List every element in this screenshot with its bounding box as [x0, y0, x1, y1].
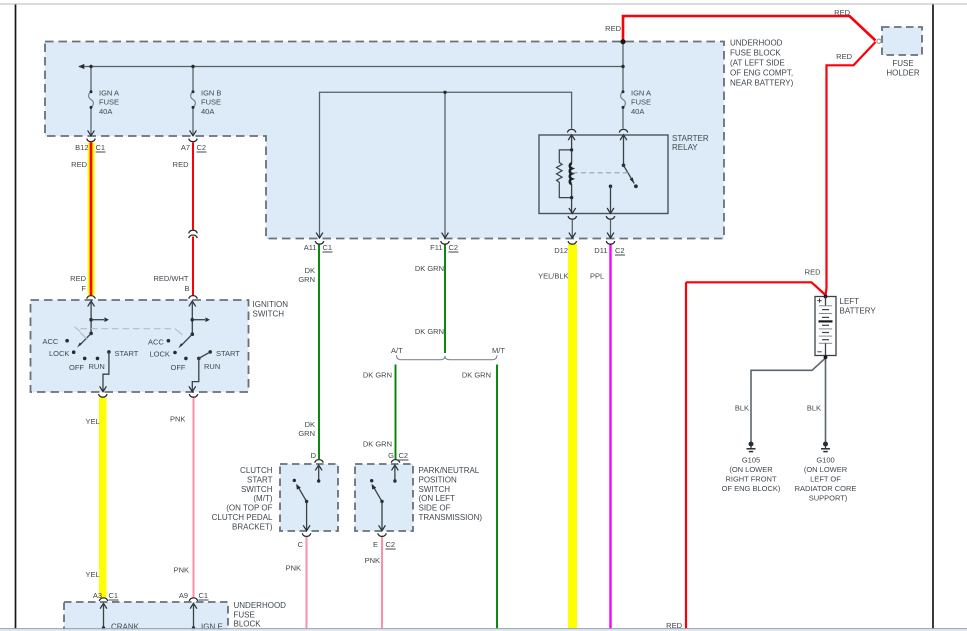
svg-text:(ON LEFT: (ON LEFT — [419, 494, 456, 503]
svg-text:RED: RED — [71, 160, 87, 169]
fuse IGN A (right) drop wire — [622, 42, 624, 92]
connector F (cap) — [87, 296, 96, 299]
svg-text:F: F — [81, 284, 86, 293]
connector D11 C2 — [607, 233, 614, 238]
svg-text:A9: A9 — [179, 591, 188, 600]
svg-text:RELAY: RELAY — [672, 143, 698, 152]
svg-text:D11: D11 — [594, 246, 607, 255]
svg-text:RUN: RUN — [204, 362, 220, 371]
svg-text:ACC: ACC — [43, 337, 59, 346]
ignition right: START output wire via RUN — [192, 352, 210, 391]
ignition right: switch arm to LOCK — [181, 334, 193, 346]
svg-text:START: START — [216, 349, 240, 358]
frame right line — [932, 5, 934, 630]
svg-text:C2: C2 — [386, 540, 396, 549]
wire PNK clutch switch C off page — [306, 537, 308, 629]
svg-text:RADIATOR CORE: RADIATOR CORE — [795, 484, 857, 493]
svg-text:G105: G105 — [742, 456, 760, 465]
svg-text:YEL/BLK: YEL/BLK — [538, 272, 568, 281]
svg-text:B: B — [184, 284, 189, 293]
node fuse1 tap — [89, 65, 92, 68]
relay pin connector (coil side) — [567, 129, 576, 132]
svg-text:C2: C2 — [449, 243, 459, 252]
svg-text:B12: B12 — [75, 143, 88, 152]
inner bus wire to relay — [320, 92, 572, 238]
ignition right: horizontal arrow — [192, 319, 205, 321]
svg-text:HOLDER: HOLDER — [886, 68, 920, 77]
svg-text:G: G — [388, 451, 394, 460]
svg-text:OFF: OFF — [69, 363, 84, 372]
connector G cap — [391, 460, 400, 463]
svg-text:PNK: PNK — [170, 415, 185, 424]
svg-text:FUSE: FUSE — [99, 98, 119, 107]
ignition right: position contacts — [167, 339, 171, 343]
wire DK GRN F11-C2 to A/T-M/T split — [444, 244, 446, 353]
svg-text:PNK: PNK — [365, 556, 380, 565]
svg-text:START: START — [247, 475, 273, 484]
connector A3 C1 cap — [99, 598, 108, 601]
svg-text:RIGHT FRONT: RIGHT FRONT — [725, 475, 777, 484]
wire DK GRN M/T branch off page — [496, 365, 498, 629]
svg-text:E: E — [373, 540, 378, 549]
wire RED fuse block to fuse holder (top) — [623, 16, 876, 42]
svg-text:RED: RED — [70, 274, 86, 283]
connector A9 C1 cap — [189, 598, 198, 601]
svg-text:(ON LOWER: (ON LOWER — [804, 465, 848, 474]
svg-text:IGN B: IGN B — [201, 89, 221, 98]
relay coil side wire — [571, 135, 573, 164]
svg-text:C1: C1 — [199, 591, 209, 600]
battery U1 box — [815, 297, 836, 356]
svg-text:A/T: A/T — [391, 346, 403, 355]
svg-text:GRN: GRN — [298, 429, 315, 438]
svg-text:FUSE: FUSE — [631, 98, 651, 107]
wire RED fuse holder to battery + — [826, 42, 876, 295]
svg-text:YEL: YEL — [86, 417, 100, 426]
underhood fuse block (bottom) — [64, 602, 228, 631]
battery - terminal dot — [824, 355, 828, 359]
frame left line — [15, 5, 17, 630]
svg-text:NEAR BATTERY): NEAR BATTERY) — [730, 79, 794, 88]
connector A11 C1 — [316, 233, 323, 238]
connector C (cup below box) — [189, 394, 198, 397]
inline connector on RED/WHT wire — [189, 230, 198, 233]
svg-text:(AT LEFT SIDE: (AT LEFT SIDE — [730, 59, 785, 68]
node F11 tap — [443, 91, 446, 94]
svg-text:DK: DK — [305, 266, 315, 275]
svg-text:IGN A: IGN A — [99, 89, 119, 98]
svg-text:IGN A: IGN A — [631, 89, 651, 98]
svg-text:LEFT OF: LEFT OF — [810, 475, 841, 484]
svg-text:A3: A3 — [93, 591, 102, 600]
svg-text:OF ENG COMPT,: OF ENG COMPT, — [730, 69, 793, 78]
ignition right: feed wire + arrow up — [189, 301, 196, 306]
connector E cup — [378, 533, 387, 536]
wire DK GRN A11-C1 to clutch switch D — [318, 244, 320, 459]
relay coil — [570, 163, 572, 184]
park/neutral switch arm — [370, 479, 373, 482]
battery plates — [819, 305, 832, 307]
svg-text:FUSE: FUSE — [234, 610, 255, 619]
svg-text:DK GRN: DK GRN — [363, 440, 392, 449]
svg-text:SUPPORT): SUPPORT) — [809, 494, 848, 503]
svg-text:ACC: ACC — [148, 338, 164, 347]
bottom strip — [0, 629, 967, 631]
svg-text:(ON TOP OF: (ON TOP OF — [226, 504, 272, 513]
svg-text:40A: 40A — [99, 107, 112, 116]
connector F11 C2 — [442, 233, 449, 238]
node red/bus junction — [621, 65, 624, 68]
svg-text:M/T: M/T — [492, 346, 505, 355]
svg-text:YEL: YEL — [86, 570, 100, 579]
connector B (cap) — [189, 296, 198, 299]
connector D cap — [315, 460, 324, 463]
ground G105 — [747, 442, 756, 452]
svg-text:CLUTCH: CLUTCH — [240, 466, 273, 475]
svg-text:40A: 40A — [201, 107, 214, 116]
svg-text:OFF: OFF — [171, 363, 186, 372]
wire BLK battery to grounds — [751, 358, 826, 442]
svg-text:RED: RED — [605, 24, 621, 33]
svg-text:PARK/NEUTRAL: PARK/NEUTRAL — [419, 466, 480, 475]
svg-text:G100: G100 — [816, 456, 834, 465]
svg-text:40A: 40A — [631, 107, 644, 116]
wire PNK park/neutral E off page — [381, 537, 383, 629]
svg-text:TRANSMISSION): TRANSMISSION) — [419, 513, 483, 522]
svg-text:IGNITION: IGNITION — [253, 300, 289, 309]
relay D12 exit wire — [571, 220, 573, 238]
svg-text:CLUTCH PEDAL: CLUTCH PEDAL — [212, 513, 273, 522]
bus wire (fuse feed) — [79, 66, 623, 68]
svg-text:D: D — [311, 451, 317, 460]
wire PPL D11-C2 off page — [609, 244, 611, 629]
connector C cup — [302, 533, 311, 536]
svg-text:BRACKET): BRACKET) — [232, 522, 273, 531]
fuse IGN A drop wire — [90, 67, 92, 93]
svg-text:RED: RED — [805, 268, 821, 277]
ignition left: START output wire — [103, 352, 109, 391]
svg-text:DK GRN: DK GRN — [462, 371, 491, 380]
wire RED A7-C2 to ignition B (with inline connector gap) — [192, 143, 194, 230]
svg-text:C1: C1 — [96, 143, 106, 152]
relay linkage (dashed) — [573, 172, 630, 174]
connector D (cup below box) — [99, 394, 108, 397]
svg-text:C2: C2 — [399, 451, 409, 460]
battery minus sign — [817, 351, 821, 353]
svg-text:F11: F11 — [430, 243, 442, 252]
ignition linkage dashed — [75, 327, 81, 332]
fuse holder box — [882, 27, 922, 55]
svg-text:UNDERHOOD: UNDERHOOD — [234, 601, 287, 610]
underhood fuse block (top, stepped outline) — [45, 42, 724, 239]
ignition left: horizontal arrow — [91, 319, 104, 321]
node fuse2 tap — [191, 65, 194, 68]
fuse terminal dots — [90, 90, 93, 93]
ignition position labels — [43, 337, 241, 372]
bus arrowhead left — [78, 64, 84, 69]
wire PNK ignition C to A9-C1 — [193, 398, 195, 598]
svg-text:FUSE: FUSE — [201, 98, 221, 107]
svg-text:OF ENG BLOCK): OF ENG BLOCK) — [722, 484, 781, 493]
node red entry dot on fuse block edge — [620, 39, 625, 44]
svg-text:FUSE: FUSE — [892, 59, 913, 68]
connector D12 — [569, 233, 576, 238]
clutch switch arm — [293, 479, 296, 482]
svg-text:UNDERHOOD: UNDERHOOD — [730, 39, 783, 48]
svg-text:C1: C1 — [323, 243, 333, 252]
svg-text:PNK: PNK — [286, 564, 301, 573]
svg-text:LEFT: LEFT — [840, 297, 860, 306]
frame bottom line — [0, 628, 967, 630]
fuse IGN B drop wire — [192, 67, 194, 93]
svg-text:DK GRN: DK GRN — [415, 264, 444, 273]
relay switch arm — [624, 165, 635, 183]
frame top line — [0, 3, 967, 5]
svg-text:SWITCH: SWITCH — [253, 309, 285, 318]
svg-text:SIDE OF: SIDE OF — [419, 504, 451, 513]
battery plus sign — [817, 298, 821, 302]
svg-text:(ON LOWER: (ON LOWER — [729, 465, 773, 474]
svg-text:LOCK: LOCK — [49, 349, 69, 358]
relay exit arrows and cups — [569, 208, 576, 213]
svg-text:DK GRN: DK GRN — [363, 371, 392, 380]
svg-text:RED: RED — [173, 160, 189, 169]
connector A7 C2 — [190, 130, 197, 135]
park/neutral position switch box — [355, 464, 413, 531]
svg-text:BLK: BLK — [807, 404, 821, 413]
svg-text:GRN: GRN — [298, 275, 315, 284]
svg-text:A7: A7 — [181, 143, 190, 152]
svg-text:FUSE BLOCK: FUSE BLOCK — [730, 49, 781, 58]
svg-text:START: START — [115, 349, 139, 358]
F11 drop wire — [444, 92, 446, 238]
svg-text:BLK: BLK — [735, 404, 749, 413]
svg-text:(M/T): (M/T) — [253, 494, 272, 503]
svg-text:BLOCK: BLOCK — [234, 620, 262, 629]
wire DK GRN A/T branch to park/neutral G — [395, 365, 397, 460]
svg-text:POSITION: POSITION — [419, 475, 457, 484]
relay D11 exit wire — [610, 220, 612, 238]
svg-text:SWITCH: SWITCH — [419, 485, 451, 494]
svg-text:C1: C1 — [109, 591, 119, 600]
svg-text:C: C — [298, 540, 304, 549]
svg-text:RUN: RUN — [89, 362, 105, 371]
ignition switch box — [31, 300, 249, 392]
svg-text:LOCK: LOCK — [150, 350, 170, 359]
relay switch contact — [609, 185, 613, 189]
svg-text:A11: A11 — [304, 243, 317, 252]
svg-text:RED: RED — [836, 52, 852, 61]
svg-text:DK: DK — [305, 420, 315, 429]
svg-text:RED: RED — [834, 8, 850, 17]
relay pin connector (switch side) — [619, 129, 628, 132]
svg-text:SWITCH: SWITCH — [241, 485, 273, 494]
svg-text:C2: C2 — [615, 246, 625, 255]
clutch start switch box — [280, 464, 338, 531]
battery + terminal dot — [824, 295, 828, 299]
svg-text:C2: C2 — [197, 143, 207, 152]
svg-text:RED/WHT: RED/WHT — [154, 274, 189, 283]
ignition left: switch arm to LOCK — [80, 333, 92, 345]
svg-text:PPL: PPL — [590, 272, 604, 281]
svg-text:STARTER: STARTER — [672, 134, 709, 143]
ground G100 — [821, 442, 830, 452]
ignition left: position contacts — [65, 339, 69, 343]
wire RED battery feed down left off page — [686, 282, 826, 295]
relay resistor R (parallel with coil) — [557, 150, 572, 198]
wire YEL ignition D to A3-C1 — [99, 398, 107, 598]
ignition left: feed wire + arrow up — [88, 301, 95, 306]
wire RED(highlighted yellow) B12-C1 to ignition F — [88, 143, 95, 296]
svg-text:BATTERY: BATTERY — [840, 306, 877, 315]
relay switch wire — [623, 135, 625, 166]
starter relay box — [539, 135, 668, 214]
connector B12 C1 — [88, 130, 95, 135]
wire YEL/BLK D12 off page — [568, 244, 577, 629]
svg-text:D12: D12 — [554, 246, 568, 255]
svg-text:DK GRN: DK GRN — [415, 327, 444, 336]
svg-text:PNK: PNK — [174, 566, 189, 575]
